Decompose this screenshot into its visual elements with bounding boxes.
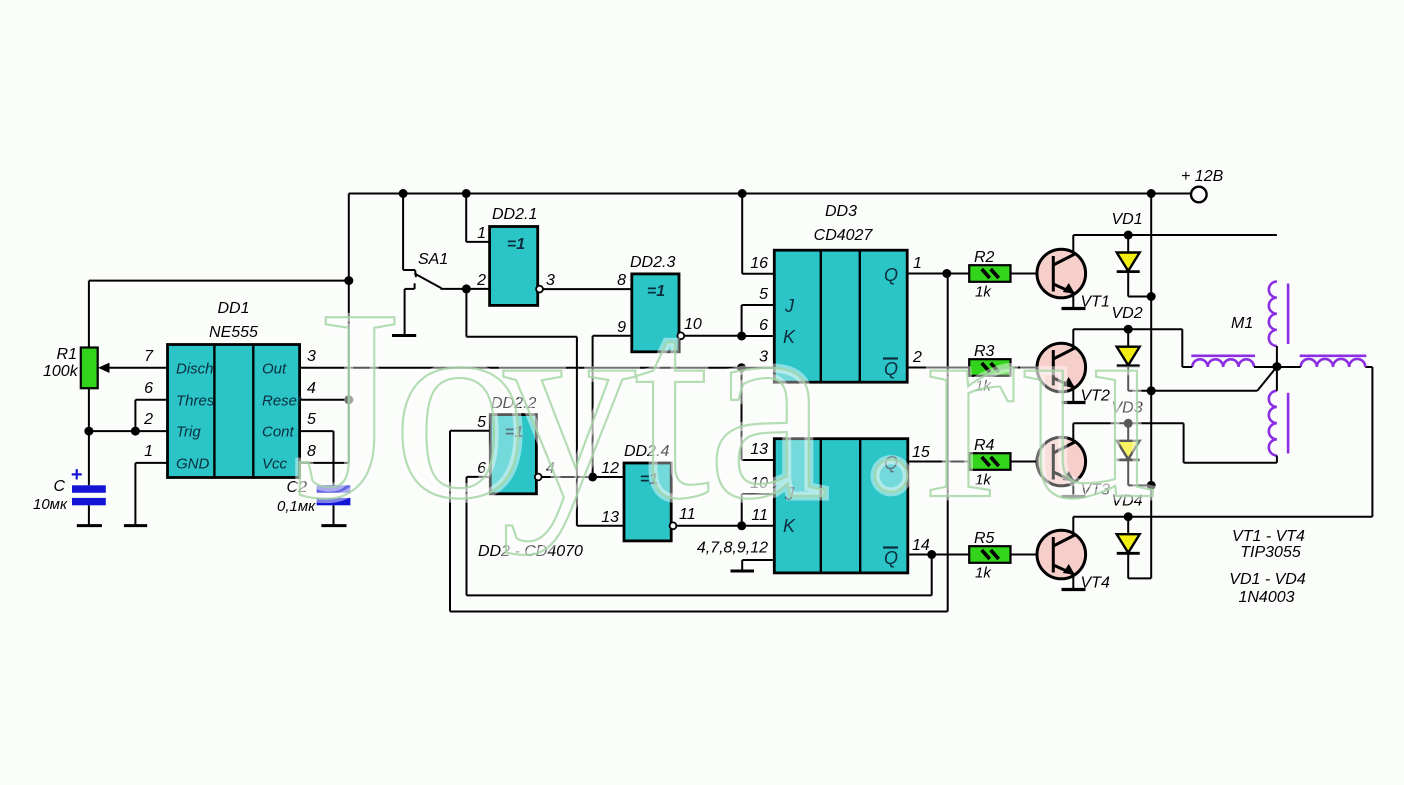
gate DD2.2 XOR [490,415,536,494]
capacitor C 10uF polarized [72,485,106,505]
svg-text:Vcc: Vcc [262,455,288,472]
node VD4 anode [1124,512,1133,521]
wire VD4 cathode to rail end [1127,554,1129,579]
resistor R1 potentiometer [81,348,98,389]
svg-text:100k: 100k [43,363,79,380]
node thres-trig junction [131,427,140,436]
wire DD2.2 pin6 feedback from Q2bar [467,476,491,478]
node JK junction top [737,332,746,341]
ground VT3 emitter [1062,495,1086,498]
svg-text:R1: R1 [57,346,77,363]
ground SA1 [392,334,416,337]
node VD2 anode [1124,325,1133,334]
wire R2 to VT1 base [1011,273,1054,275]
node rail-VD1 [1147,292,1156,301]
wire VT4 emitter [1072,574,1074,588]
wire VT4 collector row [1073,516,1372,518]
wire Q1bar to R3 [907,367,969,369]
svg-text:+ 12В: + 12В [1181,168,1224,185]
svg-text:1k: 1k [975,565,992,582]
wire DD1 Disch pin7 with arrow [104,367,168,369]
wire DD1 Out pin3 long [300,367,742,369]
gate DD2.4 XOR [624,463,671,541]
wire clk junction to pin13 [741,368,743,460]
wire out to DD3 pin3 [742,367,775,369]
wire VD2 cathode to rail [1127,366,1129,391]
diode VD1 1N4003 [1117,235,1140,272]
ground VT2 emitter [1062,401,1086,404]
svg-text:VT1 - VT4: VT1 - VT4 [1232,528,1305,545]
wire VT3 emitter [1072,481,1074,495]
wire Vcc vertical (x=348.8) [348,194,350,463]
ground C [77,524,102,527]
wire DD2.3 pin9 [593,335,632,337]
node reset junction [344,395,353,404]
resistor R2 [969,265,1010,282]
node bus-DD3 junction [738,189,747,198]
node rail-VD2 centre-tap [1147,386,1156,395]
wire DD2.3 out10 to DD3 J/K [684,335,742,337]
svg-text:Thres: Thres [176,392,215,409]
node Q1 junction [942,269,951,278]
motor M1 winding right [1277,356,1366,367]
node VD3 anode [1124,419,1133,428]
wire DD3-2 ground stub [742,559,774,561]
wire DD2.1 out to DD2.3 pin8 [543,288,632,290]
node R1-branch junction [344,276,353,285]
terminal +12V [1191,187,1207,203]
wire VT2 collector row [1073,328,1182,330]
wire DD1 Reset pin4 stub [300,399,349,401]
svg-text:VD1: VD1 [1112,211,1143,228]
svg-text:6: 6 [144,380,153,397]
wire SA1 drop from bus [402,194,404,271]
resistor R4 [969,453,1010,470]
wire Q2bar to R5 [908,554,969,556]
wire VT3 collector row [1073,422,1183,424]
motor M1 winding bottom [1269,367,1288,463]
wire Q2 to R4 [908,461,969,463]
wire VT1 emitter [1072,293,1074,307]
svg-text:Joyta.ru: Joyta.ru [294,246,1158,556]
svg-text:C: C [53,478,65,495]
svg-text:7: 7 [144,348,154,365]
node bus-DD2.1 junction [462,189,471,198]
node JK junction bottom [737,521,746,530]
svg-text:CD4027: CD4027 [814,227,874,244]
wire DD3 pin6 stub [742,335,775,337]
svg-text:Trig: Trig [176,424,201,441]
wire Vcc pin8 stub [300,462,349,464]
wire DD2.4 out11 to DD3 K [676,525,774,527]
flip-flop DD3 lower CD4027 [774,439,908,573]
wire VT2 collector [1072,329,1074,348]
node out-DD3clk junction [737,363,746,372]
svg-text:VT4: VT4 [1081,575,1110,592]
motor M1 winding top [1269,282,1288,367]
svg-text:1: 1 [477,225,486,242]
wire VT2 emitter [1072,387,1074,401]
wire SA1 to DD2.1 pin2 [441,288,490,290]
wire DD1 Thres pin6 bracket [135,399,167,401]
switch SA1 lower contact [405,288,415,290]
wire R3 to VT2 base [1011,367,1054,369]
pin bubble DD2.4 out11 [670,522,677,529]
wire VD1 cathode to rail [1127,272,1129,297]
pin bubble DD2.2 out4 [535,474,542,481]
ground VT4 emitter [1062,588,1086,591]
resistor R5 [969,546,1010,563]
wire DD2.1 pin1 from bus [465,194,467,242]
wire VT3 collector [1072,423,1074,442]
ground C2 [321,524,346,527]
svg-text:Q: Q [884,548,898,568]
svg-text:M1: M1 [1231,315,1253,332]
svg-text:1N4003: 1N4003 [1238,589,1294,606]
wire SA1-DD2.4 chain [465,289,467,337]
wire DD1 Cont pin5 to C2 [300,430,334,432]
node SA1 junction [462,284,471,293]
motor M1 winding left [1182,356,1277,367]
svg-text:+: + [71,464,83,486]
gate DD2.1 XOR [490,227,538,306]
node rail-VD3 [1147,481,1156,490]
wire Q1 to R2 [907,273,969,275]
resistor R3 [969,359,1010,376]
svg-text:Disch: Disch [176,360,214,377]
node trig junction left [84,427,93,436]
watermark joyta.ru [294,246,1158,556]
svg-text:TIP3055: TIP3055 [1240,544,1301,561]
wire +12V rail vertical [1150,194,1152,579]
svg-text:VD1 - VD4: VD1 - VD4 [1229,571,1306,588]
flip-flop DD3 upper CD4027 [774,250,907,382]
node bus-SA1 junction [399,189,408,198]
svg-text:10мк: 10мк [33,496,68,513]
pin bubble DD2.3 out10 [677,332,684,339]
pin bubble DD2.1 out3 [536,286,543,293]
wire VT1 collector [1072,235,1074,255]
wire to R1 top [89,280,349,282]
wire VT1 collector row [1073,234,1277,236]
wire R5 to VT4 base [1011,554,1054,556]
wire VD3 cathode to rail [1127,460,1129,485]
wire R1 bottom to C [88,388,90,486]
ground DD3 pins 4,7,8,9,12 [731,570,755,573]
wire DD1 GND pin1 [135,462,167,464]
capacitor C2 0.1uF [317,485,351,505]
node VD1 anode [1124,231,1133,240]
wire centre-tap horizontal [1151,390,1257,392]
node Q2bar junction [927,550,936,559]
wire DD3 pin10 bracket [741,494,743,526]
svg-text:=1: =1 [507,236,525,253]
svg-text:Out: Out [262,360,287,377]
gate DD2.3 XOR [632,274,679,352]
node bus +12V junction [1147,189,1156,198]
wire SA1 lower to ground [404,289,406,335]
wire VT4 collector [1072,517,1074,536]
wire top +12V bus [349,193,1191,195]
svg-text:Cont: Cont [262,424,295,441]
wire DD3 pin5 bracket [742,304,775,306]
svg-text:DD3: DD3 [825,203,857,220]
wire R4 to VT3 base [1011,461,1054,463]
diode VD2 1N4003 [1117,329,1140,366]
ground VT1 emitter [1062,307,1086,310]
svg-text:DD1: DD1 [217,300,249,317]
wire DD1 Trig pin2 [89,430,168,432]
ground DD1 GND [124,524,147,527]
wire DD3 pin16 from bus [741,194,743,274]
svg-text:1: 1 [144,443,153,460]
op-amp U1 : DD1 NE555 timer [168,345,303,478]
node pin9-out4 junction [588,473,597,482]
wire DD2.2 pin5 feedback from Q1 [450,430,490,432]
svg-text:GND: GND [176,455,210,472]
wire centre-tap diagonal [1257,367,1277,391]
wire pin9 vertical gray [592,336,594,477]
switch SA1 [403,269,415,271]
node M1 centre tap [1272,362,1281,371]
svg-text:DD2.1: DD2.1 [492,206,537,223]
diode VD3 1N4003 [1117,423,1140,460]
svg-text:2: 2 [143,411,153,428]
wire DD2.2 out4 to DD2.4 pin12 [542,476,625,478]
diode VD4 1N4003 [1117,517,1140,554]
svg-text:NE555: NE555 [209,324,258,341]
